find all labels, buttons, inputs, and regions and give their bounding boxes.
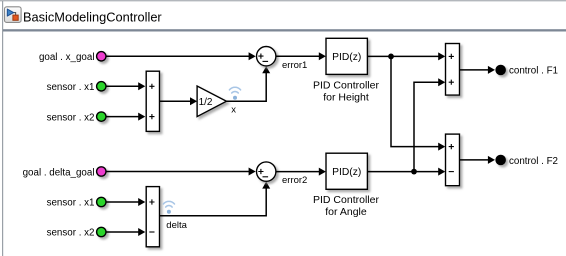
minus sign A2 in2 — [149, 231, 154, 233]
port goal.delta_goal (magenta) — [97, 167, 106, 176]
port sensor.x1 (green) — [97, 82, 106, 91]
svg-text:for Height: for Height — [323, 91, 369, 103]
svg-text:goal . delta_goal: goal . delta_goal — [23, 167, 95, 178]
svg-text:BasicModelingController: BasicModelingController — [23, 9, 162, 24]
sum circle S1 — [257, 47, 276, 66]
port control.F2 (black) — [495, 155, 506, 166]
svg-text:goal . x_goal: goal . x_goal — [39, 52, 95, 63]
svg-text:1/2: 1/2 — [199, 97, 213, 108]
minus sign S2 — [263, 176, 269, 178]
port sensor.x2 (green) — [97, 112, 106, 121]
svg-text:PID(z): PID(z) — [332, 167, 361, 178]
plus sign A3 in2 — [449, 80, 454, 85]
svg-text:error2: error2 — [282, 175, 307, 186]
svg-text:PID Controller: PID Controller — [313, 79, 379, 91]
wire pid2 to add4 — [367, 171, 441, 173]
svg-text:sensor . x2: sensor . x2 — [47, 112, 95, 123]
svg-text:PID(z): PID(z) — [332, 52, 361, 63]
wire delta_goal to sum2 — [106, 171, 252, 173]
wire x1 to sub2 — [106, 201, 142, 203]
wire add1 to gain — [160, 100, 194, 102]
plus sign A1 in1 — [149, 84, 154, 89]
minus sign S1 — [263, 60, 269, 62]
wire x2 to sub2 — [106, 231, 142, 233]
junction J1 — [388, 54, 394, 60]
svg-text:sensor . x1: sensor . x1 — [47, 82, 95, 93]
gain G1 triangle — [197, 86, 226, 117]
wire pid1 to add3 — [367, 55, 441, 57]
svg-text:delta: delta — [166, 220, 187, 231]
add block A1 (x1+x2) — [146, 71, 159, 131]
svg-text:control . F1: control . F1 — [509, 66, 558, 77]
wire sum1 to pid1 — [276, 55, 322, 57]
wire x_goal to sum1 — [106, 55, 252, 57]
PID block U2 — [326, 153, 367, 189]
subtract block A2 (x1-x2) — [146, 187, 159, 247]
plus sign A4 in1 — [449, 144, 454, 149]
wire x2 to add1 — [106, 116, 142, 118]
svg-text:error1: error1 — [282, 60, 307, 71]
add block A4 (F2) — [446, 134, 460, 186]
wire gain to corner and up to sum1 — [227, 70, 267, 101]
port sensor.x2 lower (green) — [97, 227, 106, 236]
junction J2 — [411, 169, 417, 175]
sum circle S2 — [257, 162, 276, 181]
plus sign A1 in2 — [149, 114, 154, 119]
plus sign A3 in1 — [449, 54, 454, 59]
logging badge on x — [229, 87, 240, 93]
port sensor.x1 lower (green) — [97, 197, 106, 206]
plus sign S1 — [258, 54, 263, 59]
wire sum2 to pid2 — [276, 171, 322, 173]
logging badge on delta — [163, 201, 174, 207]
svg-text:PID Controller: PID Controller — [313, 194, 379, 206]
left window border — [2, 1, 3, 256]
svg-text:for Angle: for Angle — [325, 206, 367, 218]
wire J1 down to add4 in1 — [391, 56, 442, 146]
port control.F1 (black) — [495, 65, 506, 76]
top window border — [0, 0, 566, 1]
svg-text:x: x — [231, 104, 236, 115]
wire x1 to add1 — [106, 85, 142, 87]
breadcrumb icon — [5, 7, 22, 23]
add block A3 (F1) — [446, 44, 460, 96]
svg-text:control . F2: control . F2 — [509, 156, 558, 167]
minus sign A4 in2 — [449, 171, 454, 173]
wire J2 up to add3 in2 — [414, 82, 442, 171]
plus sign A2 in1 — [149, 199, 154, 204]
PID block U1 — [326, 38, 367, 74]
svg-text:sensor . x1: sensor . x1 — [47, 198, 95, 209]
wire add4 to F2 port — [460, 159, 492, 161]
wire add3 to F1 port — [460, 69, 492, 71]
svg-text:sensor . x2: sensor . x2 — [47, 228, 95, 239]
title bar separator — [3, 29, 566, 31]
plus sign S2 — [258, 169, 263, 174]
wire sub2 to corner and up to sum2 — [160, 185, 267, 216]
port goal.x_goal (magenta) — [97, 52, 106, 61]
